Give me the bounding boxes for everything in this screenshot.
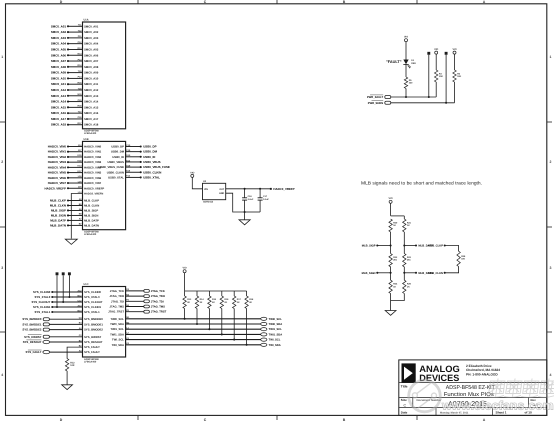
wire pin SYS_BMODE1 bbox=[50, 323, 83, 325]
resistor R14 bbox=[195, 296, 198, 309]
wire MLB_DATN stub bbox=[404, 272, 416, 274]
wire R3 to FAULT rail bbox=[435, 82, 437, 97]
svg-text:LFBGA400: LFBGA400 bbox=[84, 132, 97, 135]
svg-text:SMC0_A13: SMC0_A13 bbox=[84, 95, 99, 98]
wire MLB top rail bbox=[391, 215, 405, 217]
wire pin HADC0_VIN2 bbox=[68, 156, 83, 158]
ground (reference) bbox=[239, 220, 250, 225]
node USB0_ID bbox=[140, 156, 142, 158]
svg-text:MLB_SIGP: MLB_SIGP bbox=[84, 209, 98, 212]
svg-text:TWI1_SCL: TWI1_SCL bbox=[269, 328, 283, 331]
svg-text:HADC0_VIN2: HADC0_VIN2 bbox=[48, 155, 67, 159]
svg-text:SYS_BMODE1: SYS_BMODE1 bbox=[22, 322, 42, 326]
svg-text:1K: 1K bbox=[407, 224, 410, 227]
node SMC0_A13 bbox=[67, 95, 69, 97]
wire pin SYS_BMODE0 bbox=[50, 318, 83, 320]
wire pin USB0_ID bbox=[126, 156, 141, 158]
wire pin HADC0_VIN1 bbox=[68, 151, 83, 153]
wire R22 to MLB_SIGN row bbox=[390, 267, 392, 280]
node HADC0_VIN1 bbox=[67, 151, 69, 153]
wire pin JTAG_TCK bbox=[126, 290, 144, 292]
ic U1C box (system / JTAG port) bbox=[83, 287, 126, 358]
node SMC0_A14 bbox=[67, 101, 69, 103]
wire net TWI0_SDA bbox=[126, 323, 261, 325]
node HADC0_VIN2 bbox=[67, 156, 69, 158]
svg-text:SYS_BMODE1: SYS_BMODE1 bbox=[84, 323, 103, 326]
svg-text:HADC0_VREFP: HADC0_VREFP bbox=[44, 186, 66, 190]
svg-text:10K: 10K bbox=[439, 75, 443, 78]
wire MLB_SIGN stub bbox=[377, 272, 390, 274]
wire rail to R14 bbox=[196, 291, 198, 296]
svg-text:SMC0_A17: SMC0_A17 bbox=[84, 118, 99, 121]
node junction TP3 on SYS_XTAL1 row bbox=[68, 296, 70, 298]
svg-text:SMC0_A07: SMC0_A07 bbox=[84, 60, 99, 63]
svg-text:U1C: U1C bbox=[84, 283, 89, 286]
svg-text:VIN: VIN bbox=[204, 188, 208, 191]
resistor R4 bbox=[453, 70, 456, 82]
svg-text:SYS_BMODE0: SYS_BMODE0 bbox=[22, 317, 42, 321]
wire R18 to bus TWI_SDA bbox=[246, 309, 248, 345]
svg-text:HADC0_VIN5: HADC0_VIN5 bbox=[84, 172, 102, 175]
svg-text:SYS_FAULT: SYS_FAULT bbox=[26, 350, 42, 354]
svg-text:PWR_FAULT: PWR_FAULT bbox=[367, 96, 384, 99]
svg-text:U1B: U1B bbox=[84, 138, 89, 141]
svg-text:SMC0_A16: SMC0_A16 bbox=[51, 111, 67, 115]
svg-text:MLB_CLKP: MLB_CLKP bbox=[84, 200, 99, 203]
svg-text:HADC0_VIN1: HADC0_VIN1 bbox=[48, 150, 67, 154]
svg-text:SYS_HWRST: SYS_HWRST bbox=[84, 336, 101, 339]
svg-text:USB0_DP: USB0_DP bbox=[111, 146, 124, 149]
svg-text:TWI_SCL: TWI_SCL bbox=[269, 339, 281, 342]
node C16 tap bbox=[244, 188, 246, 190]
svg-text:SYS_XTAL0: SYS_XTAL0 bbox=[84, 296, 100, 299]
node SMC0_A04 bbox=[67, 43, 69, 45]
svg-text:OUT: OUT bbox=[219, 188, 224, 191]
svg-text:HADC0_VIN3: HADC0_VIN3 bbox=[48, 160, 67, 164]
zone letters bottom bbox=[60, 418, 486, 422]
wire pin JTAG_TDO bbox=[126, 295, 144, 297]
svg-text:SYS_CLKIN0: SYS_CLKIN0 bbox=[33, 290, 51, 294]
svg-text:2K: 2K bbox=[212, 301, 215, 304]
node MLB_DATP label dot bbox=[415, 244, 417, 246]
svg-text:HADC0_VIN0: HADC0_VIN0 bbox=[48, 145, 67, 149]
node SMC0_A07 bbox=[67, 60, 69, 62]
svg-text:HADC0_VIN0: HADC0_VIN0 bbox=[84, 146, 102, 149]
svg-text:HADC0_VREFP: HADC0_VREFP bbox=[273, 187, 294, 191]
svg-text:SMC0_A14: SMC0_A14 bbox=[84, 101, 99, 104]
offpage flag JTAG_TDI bbox=[144, 300, 150, 303]
resistor R12 bbox=[65, 359, 68, 371]
node MLB_SIGP bbox=[67, 209, 69, 211]
wire col B top bbox=[403, 216, 405, 219]
svg-text:SMC0_A18: SMC0_A18 bbox=[84, 124, 99, 127]
svg-text:SMC0_A11: SMC0_A11 bbox=[51, 82, 66, 86]
svg-text:SYS_RESOUT: SYS_RESOUT bbox=[23, 340, 42, 344]
node MLB_CLKP bbox=[444, 244, 446, 246]
svg-text:MLB_CLKN: MLB_CLKN bbox=[50, 203, 66, 207]
wire pin HADC0_VIN4 bbox=[68, 166, 83, 168]
wire pin SYS_FAULT bbox=[50, 351, 83, 353]
wire pin SMC0_A04 bbox=[68, 43, 83, 45]
node SMC0_A12 bbox=[67, 89, 69, 91]
node SYS_CLKIN1 bbox=[51, 306, 53, 308]
svg-text:SMC0_A05: SMC0_A05 bbox=[84, 48, 99, 51]
resistor R17 bbox=[233, 296, 236, 309]
wire pin SMC0_A03 bbox=[68, 37, 83, 39]
node MLB_CLKN bbox=[444, 272, 446, 274]
offpage flag JTAG_TCK bbox=[144, 290, 150, 293]
wire pin SYS_FAULT pull resistor branch bbox=[67, 347, 82, 359]
svg-text:HADC0_VIN7: HADC0_VIN7 bbox=[48, 181, 67, 185]
resistor R22 bbox=[389, 254, 392, 267]
svg-text:GND: GND bbox=[219, 192, 224, 195]
node MLB_SIGN bbox=[390, 272, 392, 274]
wire pin SMC0_A11 bbox=[68, 83, 83, 85]
svg-text:TWI1_SDA: TWI1_SDA bbox=[269, 333, 283, 336]
svg-text:SMC0_A10: SMC0_A10 bbox=[84, 77, 99, 80]
svg-text:SYS_FAULT: SYS_FAULT bbox=[84, 346, 100, 349]
title block row line 1 bbox=[399, 382, 547, 384]
wire VIO to LED anode bbox=[405, 42, 407, 60]
led D1 FAULT bbox=[403, 60, 408, 65]
testpoint TP1 bbox=[56, 272, 59, 275]
wire R16 to bus TWI1_SDA bbox=[221, 309, 223, 335]
ic U1A box (processor SMC port) bbox=[83, 22, 126, 129]
svg-text:JTAG_TDO: JTAG_TDO bbox=[110, 295, 125, 298]
svg-text:TWI0_SCL: TWI0_SCL bbox=[269, 318, 283, 321]
title block row line 2 bbox=[399, 397, 547, 399]
wire pin SMC0_A14 bbox=[68, 101, 83, 103]
wire pin JTAG_TRST bbox=[126, 311, 144, 313]
wire rail to R16 bbox=[221, 291, 223, 296]
node R18 / TWI_SDA bbox=[246, 344, 248, 346]
node C17 tap bbox=[259, 188, 261, 190]
node SMC0_A02 bbox=[67, 31, 69, 33]
wire ground rail (reference) bbox=[245, 211, 261, 213]
ground (HADC0_VREFN) bbox=[65, 239, 77, 244]
svg-text:USB0_VBUS: USB0_VBUS bbox=[107, 161, 124, 164]
svg-text:TWI1_SCL: TWI1_SCL bbox=[110, 328, 124, 331]
node USB0_XTAL bbox=[140, 176, 142, 178]
node R14 / TWI0_SDA bbox=[196, 323, 198, 325]
capacitor C17 bbox=[259, 189, 261, 198]
wire R20 to MLB_SIGP row bbox=[390, 232, 392, 254]
wire VIO stem to rail bbox=[184, 273, 186, 291]
wire rail to R17 bbox=[233, 291, 235, 296]
svg-text:HADC0_VIN6: HADC0_VIN6 bbox=[84, 177, 102, 180]
wire R17 to bus TWI_SCL bbox=[233, 309, 235, 340]
svg-text:SMC0_A14: SMC0_A14 bbox=[51, 100, 67, 104]
node HADC0_VIN6 bbox=[67, 177, 69, 179]
wire TP3 to SYS_XTAL1 bbox=[68, 275, 70, 297]
watermark logo ring bbox=[409, 380, 441, 412]
node SMC0_A11 bbox=[67, 83, 69, 85]
offpage flag TWI1_SCL bbox=[261, 328, 267, 331]
offpage flag JTAG_TDO bbox=[144, 295, 150, 298]
svg-text:USB0_DM: USB0_DM bbox=[111, 151, 125, 154]
wire net TWI_SCL bbox=[126, 339, 261, 341]
offpage flag PWR_FAULT bbox=[385, 96, 391, 99]
wire pin SYS_XTAL1 bbox=[52, 311, 82, 313]
wire pin USB0_CLKIN bbox=[126, 171, 141, 173]
wire pin SMC0_A07 bbox=[68, 60, 83, 62]
node junction TP2 on SYS_CLKOUT row bbox=[62, 301, 64, 303]
svg-text:MLB_SIGN: MLB_SIGN bbox=[84, 214, 98, 217]
node SMC0_A03 bbox=[67, 37, 69, 39]
testpoint TP4 bbox=[427, 52, 430, 55]
node MLB_DATP bbox=[403, 244, 405, 246]
svg-text:Title: Title bbox=[401, 384, 408, 388]
svg-text:JTAG_TDI: JTAG_TDI bbox=[151, 300, 164, 303]
svg-text:USB0_CLKIN: USB0_CLKIN bbox=[107, 171, 124, 174]
testpoint TP2 bbox=[62, 272, 65, 275]
wire pin SMC0_A05 bbox=[68, 48, 83, 50]
svg-text:2: 2 bbox=[1, 160, 3, 164]
svg-text:MLB_SIGN: MLB_SIGN bbox=[51, 213, 66, 217]
wire pin SMC0_A17 bbox=[68, 118, 83, 120]
svg-text:SMC0_A09: SMC0_A09 bbox=[84, 72, 99, 75]
wire net PWR_FAULT rail bbox=[391, 96, 436, 98]
wire pull-up rail bbox=[185, 290, 247, 292]
svg-text:RED: RED bbox=[411, 62, 416, 65]
wire pin SYS_CLKIN0 bbox=[52, 291, 82, 293]
svg-text:HADC0_VIN4: HADC0_VIN4 bbox=[48, 165, 67, 169]
node USB0_VBUS bbox=[140, 161, 142, 163]
svg-text:SYS_XTAL0: SYS_XTAL0 bbox=[34, 295, 50, 299]
wire rail to R13 bbox=[184, 291, 186, 296]
svg-text:TWI0_SCL: TWI0_SCL bbox=[110, 318, 124, 321]
wire VIO to U2 input bbox=[192, 177, 202, 188]
wire pin SMC0_A10 bbox=[68, 77, 83, 79]
resistor R25 bbox=[403, 280, 406, 293]
node MLB_CLKN bbox=[67, 204, 69, 206]
svg-text:TWI_SDA: TWI_SDA bbox=[269, 344, 281, 347]
node SYS_XTAL1 bbox=[51, 311, 53, 313]
node R16 / TWI1_SDA bbox=[221, 333, 223, 335]
svg-text:1: 1 bbox=[550, 55, 552, 59]
svg-text:TWI1_SDA: TWI1_SDA bbox=[110, 333, 124, 336]
wire net TWI0_SCL bbox=[126, 318, 261, 320]
offpage flag SYS_FAULT bbox=[43, 350, 50, 353]
svg-text:USB0_XTAL: USB0_XTAL bbox=[108, 176, 124, 179]
resistor R13 bbox=[183, 296, 186, 309]
offpage flag TWI0_SDA bbox=[261, 322, 267, 325]
node PWR_SHUTDOWN / TP5 bbox=[445, 102, 447, 104]
ic U1B box (HADC / USB / MLB port) bbox=[83, 141, 126, 229]
frame zone ticks top bbox=[138, 0, 417, 4]
node USB0_DP bbox=[140, 145, 142, 147]
svg-text:Date: Date bbox=[401, 411, 408, 415]
node USB0_VBUS_FUSE bbox=[140, 166, 142, 168]
svg-text:1: 1 bbox=[1, 55, 3, 59]
svg-text:SMC0_A04: SMC0_A04 bbox=[84, 43, 99, 46]
svg-text:SYS_CLKIN1: SYS_CLKIN1 bbox=[33, 305, 51, 309]
node junction TP1 on SYS_CLKIN1 row bbox=[56, 306, 58, 308]
svg-text:TWI0_SDA: TWI0_SDA bbox=[110, 323, 124, 326]
svg-text:JTAG_TCK: JTAG_TCK bbox=[151, 290, 165, 293]
svg-text:MLB signals need to be short a: MLB signals need to be short and matched… bbox=[361, 180, 482, 185]
svg-text:TWI0_SDA: TWI0_SDA bbox=[269, 323, 283, 326]
svg-text:JTAG_TRST: JTAG_TRST bbox=[108, 311, 124, 314]
title block sheet divider bbox=[492, 408, 494, 416]
svg-text:USB0_ID: USB0_ID bbox=[143, 155, 155, 159]
svg-text:ADSP-BF548 EZ-KIT: ADSP-BF548 EZ-KIT bbox=[446, 385, 496, 391]
wire pin SMC0_A02 bbox=[68, 31, 83, 33]
svg-text:2K: 2K bbox=[249, 301, 252, 304]
svg-text:www.elecfans.com: www.elecfans.com bbox=[441, 399, 554, 413]
node R17 / TWI_SCL bbox=[233, 339, 235, 341]
svg-text:3: 3 bbox=[550, 266, 552, 270]
svg-text:MLB_CLKN: MLB_CLKN bbox=[84, 204, 99, 207]
svg-text:TWI_SCL: TWI_SCL bbox=[112, 339, 124, 342]
wire pin MLB_SIGP bbox=[68, 209, 83, 211]
wire net PWR_SHUTDOWN rail bbox=[391, 102, 455, 104]
wire pin SMC0_A12 bbox=[68, 89, 83, 91]
svg-text:SYS_FAULT: SYS_FAULT bbox=[84, 351, 100, 354]
svg-text:2K: 2K bbox=[237, 301, 240, 304]
wire pin USB0_XTAL bbox=[126, 176, 141, 178]
node USB0_CLKIN bbox=[140, 171, 142, 173]
wire pin SMC0_A13 bbox=[68, 95, 83, 97]
svg-text:1K: 1K bbox=[393, 285, 396, 288]
wire R21 to MLB_DATP row bbox=[403, 232, 405, 254]
svg-text:JTAG_TCK: JTAG_TCK bbox=[110, 290, 124, 293]
svg-text:SMC0_A04: SMC0_A04 bbox=[51, 42, 67, 46]
svg-text:USB0_ID: USB0_ID bbox=[112, 156, 124, 159]
title block size divider bbox=[412, 398, 414, 408]
wire pin MLB_CLKP bbox=[68, 200, 83, 202]
wire R26 to MLB_CLKN bbox=[445, 267, 459, 273]
svg-text:SMC0_A12: SMC0_A12 bbox=[51, 88, 67, 92]
svg-text:JTAG_TDI: JTAG_TDI bbox=[111, 300, 124, 303]
wire ground stem bbox=[244, 212, 246, 220]
svg-text:SMC0_A17: SMC0_A17 bbox=[51, 117, 67, 121]
svg-text:SYS_HWRST: SYS_HWRST bbox=[24, 335, 42, 339]
svg-text:HADC0_VREFP: HADC0_VREFP bbox=[84, 187, 104, 190]
wire TP2 to SYS_CLKOUT bbox=[62, 275, 64, 302]
svg-text:4: 4 bbox=[1, 373, 3, 377]
wire VIO to R4 bbox=[454, 54, 456, 70]
node MLB_SIGP label dot bbox=[376, 244, 378, 246]
wire pin SYS_RESOUT bbox=[50, 341, 83, 343]
offpage flag TWI1_SDA bbox=[261, 333, 267, 336]
offpage flag SYS_BMODE0 bbox=[43, 318, 49, 321]
wire R14 to bus TWI0_SDA bbox=[196, 309, 198, 325]
svg-text:VIO: VIO bbox=[404, 36, 408, 39]
wire R13 to bus TWI0_SCL bbox=[184, 309, 186, 319]
svg-text:SMC0_A01: SMC0_A01 bbox=[51, 24, 67, 28]
node HADC0_VIN7 bbox=[67, 182, 69, 184]
node MLB_CLKP bbox=[67, 199, 69, 201]
svg-text:SMC0_A18: SMC0_A18 bbox=[51, 123, 67, 127]
svg-text:2.2uF: 2.2uF bbox=[248, 198, 254, 201]
svg-text:MLB_CLKP: MLB_CLKP bbox=[428, 245, 443, 248]
node MLB_DATN label dot bbox=[415, 272, 417, 274]
svg-text:SYS_BMODE0: SYS_BMODE0 bbox=[84, 318, 103, 321]
ic U2 reference box bbox=[203, 183, 226, 199]
node SMC0_A15 bbox=[67, 106, 69, 108]
svg-text:HADC0_VIN5: HADC0_VIN5 bbox=[48, 171, 67, 175]
svg-text:C: C bbox=[404, 403, 407, 407]
svg-text:MLB_CLKP: MLB_CLKP bbox=[50, 199, 66, 203]
wire pin HADC0_VIN3 bbox=[68, 161, 83, 163]
svg-text:PWR_SHDN: PWR_SHDN bbox=[368, 102, 383, 105]
title block outline bbox=[399, 360, 547, 416]
node SYS_CLKOUT bbox=[51, 301, 53, 303]
node MLB_SIGP bbox=[390, 244, 392, 246]
wire pin USB0_DP bbox=[126, 146, 141, 148]
node SMC0_A08 bbox=[67, 66, 69, 68]
svg-text:SMC0_A15: SMC0_A15 bbox=[84, 106, 99, 109]
svg-text:HADC0_VIN3: HADC0_VIN3 bbox=[84, 161, 102, 164]
svg-text:USB0_VBUS_FUSE: USB0_VBUS_FUSE bbox=[143, 165, 170, 169]
svg-text:Size: Size bbox=[401, 398, 407, 402]
node R13 / TWI0_SCL bbox=[184, 318, 186, 320]
node SMC0_A17 bbox=[67, 118, 69, 120]
svg-text:JTAG_TDO: JTAG_TDO bbox=[151, 295, 165, 298]
svg-text:SMC0_A03: SMC0_A03 bbox=[51, 36, 67, 40]
power VIO (R4) bbox=[453, 51, 456, 54]
offpage flag JTAG_TRST bbox=[144, 310, 150, 313]
svg-text:JTAG_TMS: JTAG_TMS bbox=[110, 306, 125, 309]
wire VIO to R3 bbox=[435, 54, 437, 70]
svg-text:MLB_SIGN: MLB_SIGN bbox=[362, 272, 376, 275]
resistor R21 bbox=[403, 219, 406, 232]
wire pin HADC0_VIN0 bbox=[68, 146, 83, 148]
node HADC0_VIN0 bbox=[67, 145, 69, 147]
svg-text:"FAULT": "FAULT" bbox=[386, 60, 402, 64]
svg-text:SMC0_A06: SMC0_A06 bbox=[51, 53, 67, 57]
wire LED cathode to R5 bbox=[405, 64, 407, 77]
ground (MLB network) bbox=[385, 311, 396, 316]
resistor R20 bbox=[389, 219, 392, 232]
svg-text:PH: 1-800-ANALOGD: PH: 1-800-ANALOGD bbox=[466, 373, 498, 377]
svg-text:SMC0_A01: SMC0_A01 bbox=[84, 25, 99, 28]
node MLB_DATN bbox=[67, 224, 69, 226]
ADI logo mark bbox=[402, 363, 416, 383]
wire pin SMC0_A15 bbox=[68, 106, 83, 108]
svg-text:SYS_XTAL1: SYS_XTAL1 bbox=[84, 311, 100, 314]
wire MLB_CLKP to R26 bbox=[445, 246, 459, 252]
svg-text:10K: 10K bbox=[457, 75, 461, 78]
wire pin SMC0_A06 bbox=[68, 54, 83, 56]
svg-text:JTAG_TRST: JTAG_TRST bbox=[151, 311, 167, 314]
offpage flag SYS_BMODE1 bbox=[43, 323, 49, 326]
resistor R15 bbox=[208, 296, 211, 309]
svg-text:MLB_DATN: MLB_DATN bbox=[84, 224, 99, 227]
svg-text:USB0_CLKIN: USB0_CLKIN bbox=[143, 170, 161, 174]
power VIO (R3) bbox=[435, 51, 438, 54]
svg-text:SMC0_A06: SMC0_A06 bbox=[84, 54, 99, 57]
svg-text:SYS_CLKIN0: SYS_CLKIN0 bbox=[84, 291, 101, 294]
svg-text:VIO: VIO bbox=[452, 48, 456, 51]
svg-text:SMC0_A08: SMC0_A08 bbox=[84, 66, 99, 69]
svg-text:USB0_XTAL: USB0_XTAL bbox=[143, 175, 160, 179]
svg-text:VIO: VIO bbox=[190, 171, 194, 174]
wire TP4 to FAULT rail bbox=[428, 55, 430, 97]
svg-text:R12: R12 bbox=[70, 361, 75, 364]
svg-text:2K: 2K bbox=[187, 301, 190, 304]
capacitor C16 bbox=[244, 189, 246, 198]
wire rail to R18 bbox=[246, 291, 248, 296]
power VIO (LED) bbox=[405, 39, 408, 42]
wire pin HADC0_VREFP bbox=[68, 187, 83, 189]
svg-text:SMC0_A08: SMC0_A08 bbox=[51, 65, 67, 69]
node ground rail bbox=[244, 211, 246, 213]
offpage flag TWI_SCL bbox=[261, 338, 267, 341]
svg-text:USB0_VBUS: USB0_VBUS bbox=[143, 160, 160, 164]
svg-text:HADC0_VIN1: HADC0_VIN1 bbox=[84, 151, 102, 154]
